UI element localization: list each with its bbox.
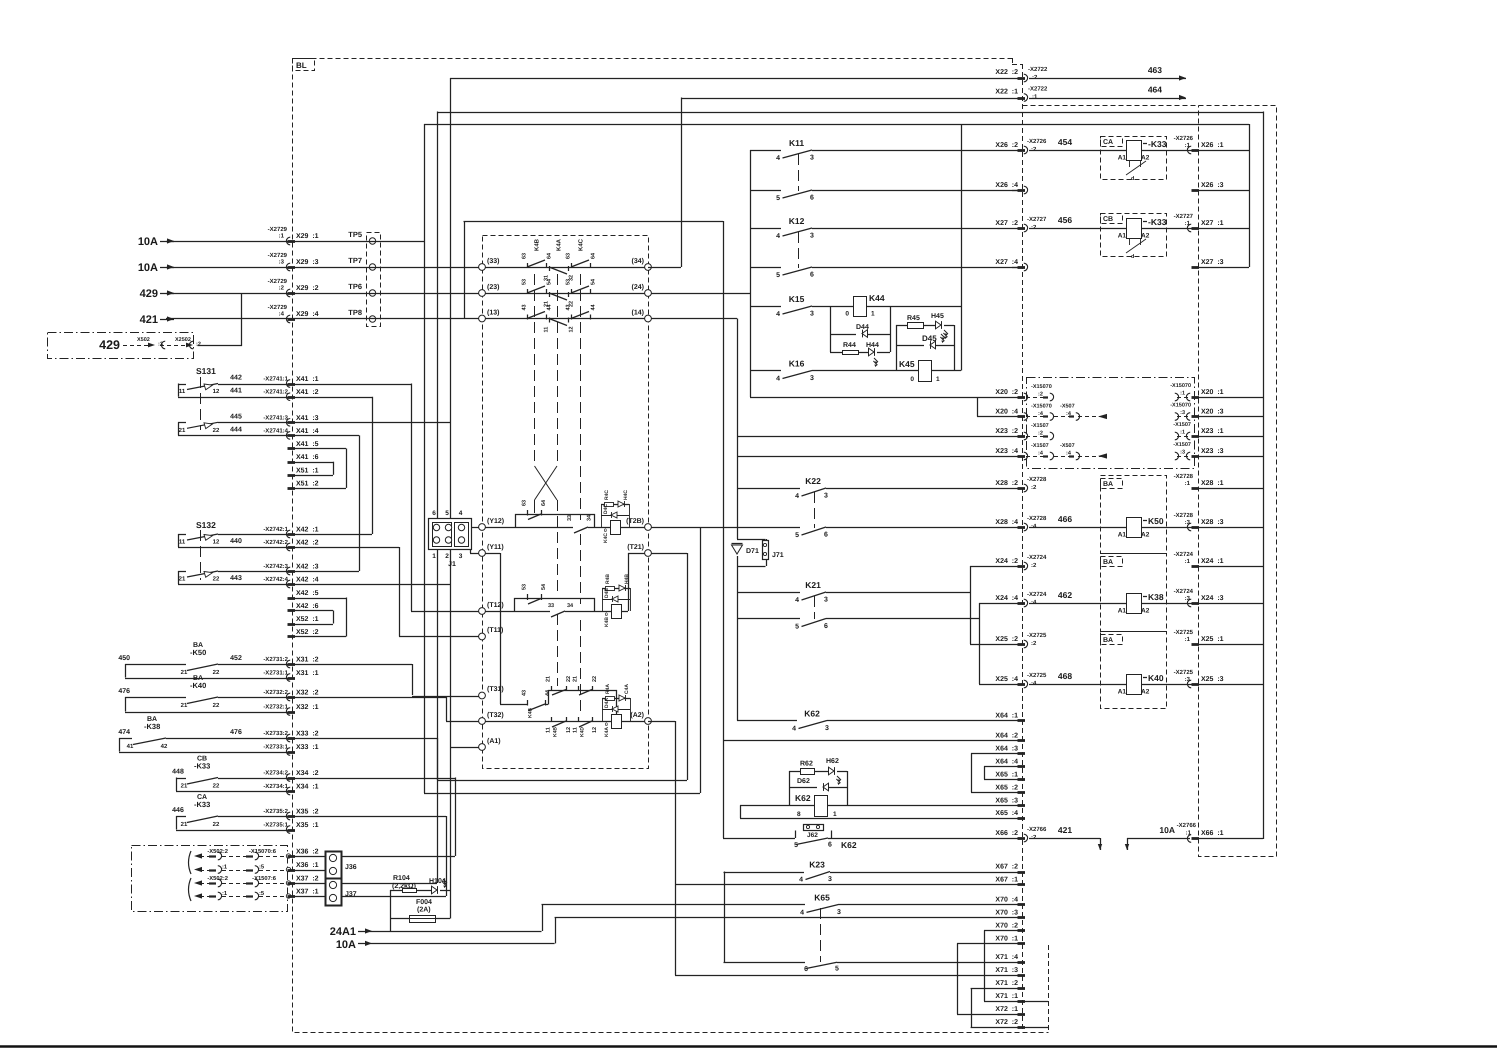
terminal X20 :4 (left) [995, 409, 1027, 421]
svg-text:A2: A2 [1141, 532, 1150, 539]
svg-text:-X507: -X507 [1060, 443, 1075, 449]
svg-text:K62: K62 [841, 840, 857, 850]
svg-text:-X2725: -X2725 [1027, 672, 1047, 679]
terminal X42 :6 [288, 603, 319, 611]
wire J37 to riser x437 [341, 738, 438, 884]
svg-text:X28 :3: X28 :3 [1201, 519, 1224, 526]
wire X70:1 row [957, 943, 1022, 945]
terminal X71 :4 [995, 954, 1025, 962]
wire 463 out [1029, 65, 1186, 81]
svg-text:64: 64 [591, 252, 597, 259]
bus (T21) riser x687 [687, 553, 689, 780]
svg-text:R44: R44 [843, 342, 856, 349]
svg-text:X41 :5: X41 :5 [296, 441, 319, 448]
test point TP8 [348, 308, 375, 322]
svg-text:11: 11 [179, 388, 186, 395]
svg-text:R62: R62 [800, 761, 813, 768]
relay coil K62 on X65:3 row [740, 793, 1022, 818]
contact S131 21-22 [178, 422, 292, 435]
svg-text:X67 :2: X67 :2 [995, 864, 1018, 871]
svg-text:4: 4 [459, 510, 463, 517]
terminal X29 :3 [286, 259, 318, 271]
wire X64:4 row [984, 766, 1022, 768]
bracket X70:2-X71:1 [984, 930, 986, 1001]
label -X2725 [1027, 632, 1047, 647]
wire X41:1 row [218, 384, 411, 386]
fuse F004 (2A) [390, 899, 450, 923]
contact 53-54 (col1) [522, 278, 553, 294]
svg-text:-X2741:4: -X2741:4 [263, 427, 288, 434]
svg-text::1: :1 [222, 865, 228, 871]
svg-text:444: 444 [230, 426, 242, 433]
svg-text:X28 :2: X28 :2 [995, 480, 1018, 487]
dashed box around test points [367, 233, 381, 327]
wire X24:1 row to bus [1196, 566, 1263, 568]
label -X2729:3 [268, 252, 288, 266]
svg-text:10A: 10A [336, 939, 356, 951]
terminal X24 :1 [1192, 558, 1224, 567]
svg-text:21: 21 [179, 576, 186, 583]
svg-text:42: 42 [161, 743, 168, 750]
svg-text::2: :2 [1038, 431, 1043, 437]
svg-text:4: 4 [795, 597, 799, 604]
svg-text::3: :3 [1185, 595, 1191, 602]
node (T11) [479, 626, 504, 640]
relay contact K15 4-3 [750, 294, 853, 318]
label -X2726 [1174, 135, 1194, 149]
svg-text:X502: X502 [137, 337, 150, 343]
svg-text:TP8: TP8 [348, 308, 362, 317]
svg-text:R4B: R4B [605, 574, 611, 584]
svg-text:X20 :4: X20 :4 [995, 409, 1018, 416]
wire 24A1 row [372, 904, 543, 931]
svg-text:0: 0 [604, 528, 607, 534]
svg-text:-X1507: -X1507 [1173, 422, 1191, 428]
label -X2741:3 [263, 414, 288, 421]
svg-text:21: 21 [181, 821, 188, 828]
contact K4B 43-44 on stub [522, 689, 552, 718]
svg-text:-X2742:3: -X2742:3 [263, 563, 288, 570]
wire X72:2 row [971, 1027, 1048, 1029]
contact -K38 41-42 [119, 738, 292, 753]
svg-text:S132: S132 [196, 520, 216, 530]
label -X2728 [1174, 473, 1194, 487]
bracket X71:2-X72:2 [971, 988, 973, 1027]
svg-text:X71 :4: X71 :4 [995, 954, 1018, 961]
svg-text:12: 12 [213, 388, 220, 395]
svg-text:454: 454 [1058, 137, 1072, 147]
svg-text:-X2724: -X2724 [1027, 591, 1047, 598]
contact 21-22 (col2) [544, 292, 575, 307]
svg-text:X41 :2: X41 :2 [296, 389, 319, 396]
terminal X34 :1 [286, 784, 318, 795]
suppressor block K4C on (Y12) [601, 490, 630, 543]
svg-text:X25 :1: X25 :1 [1201, 636, 1224, 643]
terminal X65 :1 [995, 771, 1025, 779]
svg-text:A1: A1 [1118, 608, 1127, 615]
relay coil K44 [845, 293, 961, 318]
label -X2729:1 [268, 226, 288, 240]
svg-text:K11: K11 [789, 138, 804, 148]
svg-text:BA: BA [1103, 481, 1113, 488]
svg-text:R45: R45 [907, 315, 920, 322]
svg-text:43: 43 [522, 690, 528, 696]
svg-text:6: 6 [824, 532, 828, 539]
svg-text:2: 2 [445, 553, 449, 560]
label -X2726 [1027, 138, 1047, 153]
dashed box BA K50 [1101, 476, 1167, 554]
svg-text:X42 :5: X42 :5 [296, 590, 319, 597]
dashed box CB -K33 [1101, 214, 1167, 257]
page bottom border [0, 1045, 1497, 1048]
svg-text:d: d [1131, 254, 1134, 260]
wire X66:1 to bus x1263 [1196, 838, 1263, 840]
svg-text:K4A: K4A [556, 238, 563, 251]
svg-text:CA: CA [1103, 139, 1113, 146]
dash-dot box X15070/X507 connectors (right) [1027, 378, 1195, 469]
wire (Y12) row [471, 527, 645, 529]
svg-text:474: 474 [118, 729, 130, 736]
svg-text:(T21): (T21) [627, 543, 644, 551]
wire X51:1 row (boxed) [292, 462, 334, 476]
svg-text:-X507: -X507 [1060, 404, 1075, 410]
terminal X67 :2 [995, 864, 1025, 873]
wire 454 row [1029, 137, 1126, 151]
svg-text:-X2729: -X2729 [268, 226, 288, 233]
node (Y12) [479, 517, 505, 530]
svg-text:33: 33 [548, 603, 554, 609]
svg-text:K23: K23 [809, 860, 825, 870]
bridge T31-T32 rail [546, 676, 617, 722]
svg-text:4: 4 [776, 233, 780, 240]
terminal X64 :1 [995, 713, 1025, 721]
svg-text:H45: H45 [931, 313, 944, 320]
label -X2733:2 [263, 730, 288, 737]
actuator mark -K33 [1126, 238, 1146, 260]
svg-text:440: 440 [230, 538, 242, 545]
connector right X20 :4 [1170, 403, 1191, 421]
svg-text:-X2726: -X2726 [1027, 138, 1047, 145]
svg-text:3: 3 [824, 493, 828, 500]
terminal X31 :1 [286, 670, 318, 681]
svg-text:43: 43 [522, 304, 528, 310]
wire (T21) row [628, 553, 687, 611]
contact K4B 63-64 [522, 238, 553, 268]
relay coil -K33 [1118, 139, 1196, 162]
input arrow 10A / terminal X29 :3 [138, 262, 174, 274]
svg-text:-K40: -K40 [190, 681, 206, 690]
svg-text:X71 :1: X71 :1 [995, 993, 1018, 1000]
wire X71:3 row [675, 975, 1022, 977]
input arrow 429 / terminal X29 :2 [140, 288, 174, 300]
svg-text:-X1507: -X1507 [1031, 423, 1049, 429]
svg-text:J71: J71 [772, 552, 784, 559]
wire (Y11) riser to 43-44 stub [486, 553, 528, 705]
svg-text:34: 34 [587, 514, 593, 521]
terminal X64 :2 [995, 732, 1025, 740]
wire riser x412 (X31:2 to T31) [412, 664, 414, 695]
connector labels X23 :4 [1026, 443, 1107, 460]
svg-text:R4C: R4C [604, 490, 610, 500]
wire (T2B) to bus 700 [652, 527, 1023, 529]
svg-text:X36 :2: X36 :2 [296, 849, 319, 856]
svg-text::2: :2 [1031, 834, 1037, 841]
svg-text:-X2732:1: -X2732:1 [263, 704, 288, 711]
wire riser x681 ((34) to X22:1) [681, 98, 683, 268]
svg-text:X64 :2: X64 :2 [995, 732, 1018, 739]
svg-text:TP6: TP6 [348, 282, 362, 291]
terminal X29 :1 [286, 233, 318, 245]
svg-text:(T31): (T31) [487, 685, 504, 693]
input arrow 10A / terminal X29 :1 [138, 236, 174, 248]
label -X2766 [1027, 826, 1047, 841]
svg-text:4: 4 [799, 877, 803, 884]
bus x723 (bypass rail down) [723, 221, 725, 838]
svg-text:(33): (33) [487, 257, 499, 265]
svg-text:X42 :3: X42 :3 [296, 564, 319, 571]
svg-text::3: :3 [1185, 676, 1191, 683]
svg-text:X52 :1: X52 :1 [296, 616, 319, 623]
terminal X65 :2 [995, 784, 1025, 792]
svg-text:22: 22 [213, 669, 220, 676]
svg-text:X23 :1: X23 :1 [1201, 428, 1224, 435]
svg-text::3: :3 [1180, 450, 1185, 456]
svg-text:450: 450 [118, 655, 130, 662]
terminal X28 :3 [1187, 519, 1223, 531]
terminal X52 :2 [288, 629, 319, 637]
svg-text:X29 :3: X29 :3 [296, 259, 319, 266]
svg-text:D4C: D4C [603, 504, 609, 514]
svg-text:6: 6 [828, 842, 832, 849]
svg-text:-X2731:2: -X2731:2 [263, 656, 288, 663]
connector X502:3 [137, 337, 165, 349]
svg-text:C4A: C4A [624, 684, 630, 694]
svg-text:X41 :4: X41 :4 [296, 428, 319, 435]
wire X51:2 row [292, 449, 347, 489]
svg-text::2: :2 [1038, 392, 1043, 398]
svg-text:53: 53 [522, 584, 528, 590]
diode H104 [416, 878, 450, 894]
terminal X71 :1 [995, 993, 1025, 1001]
svg-text:-X2726: -X2726 [1174, 135, 1194, 142]
node (33) [479, 257, 500, 270]
terminal X24 :2 [995, 558, 1027, 570]
relay contact K11 5-6 [750, 190, 1022, 202]
wire X28:1 row to bus [1196, 488, 1263, 490]
wire X35:2 row [218, 816, 446, 818]
svg-text:4: 4 [776, 311, 780, 318]
wire X22:1 row [681, 98, 1022, 100]
bus x961 (aux rail) [961, 124, 963, 371]
svg-text:CB: CB [1103, 216, 1113, 223]
rail y793 (T2B) to riser x424 [424, 793, 700, 795]
svg-text:468: 468 [1058, 671, 1072, 681]
svg-text:J36: J36 [345, 864, 357, 871]
svg-text:-X2724: -X2724 [1174, 588, 1194, 595]
svg-text:-X2731:1: -X2731:1 [263, 670, 288, 677]
wire TP7 row [166, 267, 479, 269]
svg-text::1: :1 [1180, 430, 1185, 436]
wire X27:4 stub [1012, 267, 1022, 269]
contact -K33 21-22 [176, 816, 292, 831]
relay contact -K50 (BA) [190, 642, 206, 657]
svg-text::1: :1 [1185, 558, 1191, 565]
terminal X25 :4 [995, 676, 1027, 688]
svg-text:-X2729: -X2729 [268, 252, 288, 259]
label -X2725 [1174, 669, 1194, 683]
wire X34:2 row [218, 778, 455, 780]
svg-text:(24): (24) [632, 283, 644, 291]
svg-text:-X1507: -X1507 [1031, 443, 1049, 449]
svg-text:-K38: -K38 [144, 722, 160, 731]
terminal X33 :1 [286, 744, 318, 755]
node (T31) [479, 685, 504, 699]
dashed connector row to X36 :2 [194, 848, 291, 860]
label -X2724 [1027, 591, 1047, 606]
svg-text:-X2741:3: -X2741:3 [263, 414, 288, 421]
wire X42:2 row [292, 547, 399, 549]
svg-text:D71: D71 [746, 548, 759, 555]
svg-text:54: 54 [541, 583, 547, 590]
wire X23:4 row [737, 456, 1022, 458]
svg-text::1: :1 [1032, 94, 1038, 101]
terminal X25 :2 [995, 636, 1027, 648]
svg-text:-K33: -K33 [1148, 217, 1167, 227]
wire number 476 [118, 688, 130, 695]
contact 11-12 (col2) [544, 318, 575, 333]
svg-text:22: 22 [213, 821, 220, 828]
wire X42:5 row [292, 598, 346, 600]
node (13) [479, 309, 500, 322]
terminal X29 :2 [286, 285, 318, 297]
label -X2731:1 [263, 670, 288, 677]
wire bracket X24:2-X25:2 [970, 566, 1022, 645]
svg-text:X64 :1: X64 :1 [995, 713, 1018, 720]
svg-text:X67 :1: X67 :1 [995, 877, 1018, 884]
svg-text:H44: H44 [866, 342, 879, 349]
terminal X64 :4 [995, 758, 1025, 766]
wire (13)-(14) row [486, 318, 738, 320]
wire number 441 [230, 388, 242, 395]
node (A2) [630, 711, 651, 724]
svg-text:K4B: K4B [528, 708, 534, 718]
svg-text:421: 421 [140, 314, 158, 326]
terminal X20 :1 [1192, 389, 1224, 398]
svg-text:D4B: D4B [604, 588, 610, 598]
svg-text:445: 445 [230, 413, 242, 420]
svg-text:X42 :2: X42 :2 [296, 540, 319, 547]
svg-text:D45: D45 [922, 334, 937, 343]
svg-text:-X15070: -X15070 [1170, 383, 1191, 389]
svg-text:X25 :2: X25 :2 [995, 636, 1018, 643]
label -X2727 [1174, 213, 1194, 227]
svg-text:-X15070:6: -X15070:6 [249, 848, 277, 855]
contact 53-54 (col3) [566, 278, 597, 294]
label -X2728 [1174, 512, 1194, 526]
svg-text:X2502: X2502 [175, 337, 191, 343]
dashed connector row to X36 :1 [194, 865, 291, 874]
svg-text:(T2B): (T2B) [626, 517, 644, 525]
wire X23 :1 to bus [1196, 436, 1263, 438]
switch S131 [196, 366, 216, 430]
relay contact K22 5-6 [795, 527, 828, 539]
svg-text:5: 5 [795, 624, 799, 631]
svg-text:(23): (23) [487, 283, 499, 291]
terminal X42 :5 [288, 590, 319, 599]
svg-text:63: 63 [522, 253, 528, 259]
wire X26:4 stub [1012, 190, 1022, 192]
terminal X20 :3 [1192, 409, 1224, 417]
terminal X66 :2 [995, 830, 1027, 842]
terminal X34 :2 [286, 770, 318, 781]
label -X2742:4 [263, 576, 288, 583]
svg-text::4: :4 [1031, 599, 1037, 606]
resistor R44 + LED H44 [830, 342, 890, 367]
svg-text:10A: 10A [138, 262, 158, 274]
svg-text:(T12): (T12) [487, 601, 504, 609]
svg-text:0: 0 [605, 612, 608, 618]
wire fuse-net left riser x390 [390, 890, 392, 931]
svg-text:-X15070: -X15070 [1031, 384, 1052, 390]
svg-text:K4C: K4C [578, 238, 585, 251]
svg-text:43: 43 [566, 304, 572, 310]
svg-text:-X2734:1: -X2734:1 [263, 783, 288, 790]
svg-text:1: 1 [432, 553, 436, 560]
wire riser x463 ((13) row bypass) [464, 221, 466, 319]
svg-text:452: 452 [230, 655, 242, 662]
terminal X70 :2 [995, 922, 1025, 930]
terminal X25 :1 [1192, 636, 1224, 645]
input arrow 421 / terminal X29 :4 [140, 314, 174, 326]
dashed connector row to X37 :2 [194, 875, 291, 887]
svg-text:K16: K16 [789, 359, 805, 369]
label -X2741:2 [263, 389, 288, 396]
svg-text:21: 21 [179, 427, 186, 434]
wire X41:6 row [292, 462, 333, 464]
svg-text:3: 3 [810, 233, 814, 240]
wire (A1) row [450, 747, 479, 749]
terminal X70 :1 [995, 935, 1025, 943]
wire X27:1 row to bus [1196, 228, 1249, 230]
svg-text:X20 :1: X20 :1 [1201, 389, 1224, 396]
svg-text:-X2722: -X2722 [1028, 66, 1048, 73]
svg-text:446: 446 [172, 807, 184, 814]
svg-text:4: 4 [800, 909, 804, 916]
wire (33)-(34) row [486, 267, 645, 269]
label -X2724 [1174, 551, 1194, 565]
wire X42:2 riser to (T11) [399, 547, 479, 637]
svg-text:X37 :2: X37 :2 [296, 876, 319, 883]
svg-text:X66 :2: X66 :2 [995, 830, 1018, 837]
svg-text::4: :4 [1031, 680, 1037, 687]
label -X2728 [1027, 476, 1047, 491]
svg-text:X70 :2: X70 :2 [995, 922, 1018, 929]
svg-text:X20 :3: X20 :3 [1201, 409, 1224, 416]
svg-text::4: :4 [1031, 523, 1037, 530]
svg-text:22: 22 [213, 427, 220, 434]
svg-text:X35 :1: X35 :1 [296, 822, 319, 829]
contact S132 21-22 [178, 571, 292, 585]
svg-text:4: 4 [776, 155, 780, 162]
svg-text::2: :2 [196, 342, 201, 348]
svg-text:-X15070: -X15070 [1031, 404, 1052, 410]
terminal X27 :2 [995, 220, 1027, 232]
terminal X31 :2 [286, 657, 318, 668]
wire X20:2 row [750, 397, 1022, 399]
contact 33-34 on (T12) [548, 603, 574, 617]
node (34) [632, 257, 652, 270]
terminal X70 :3 [995, 909, 1025, 917]
